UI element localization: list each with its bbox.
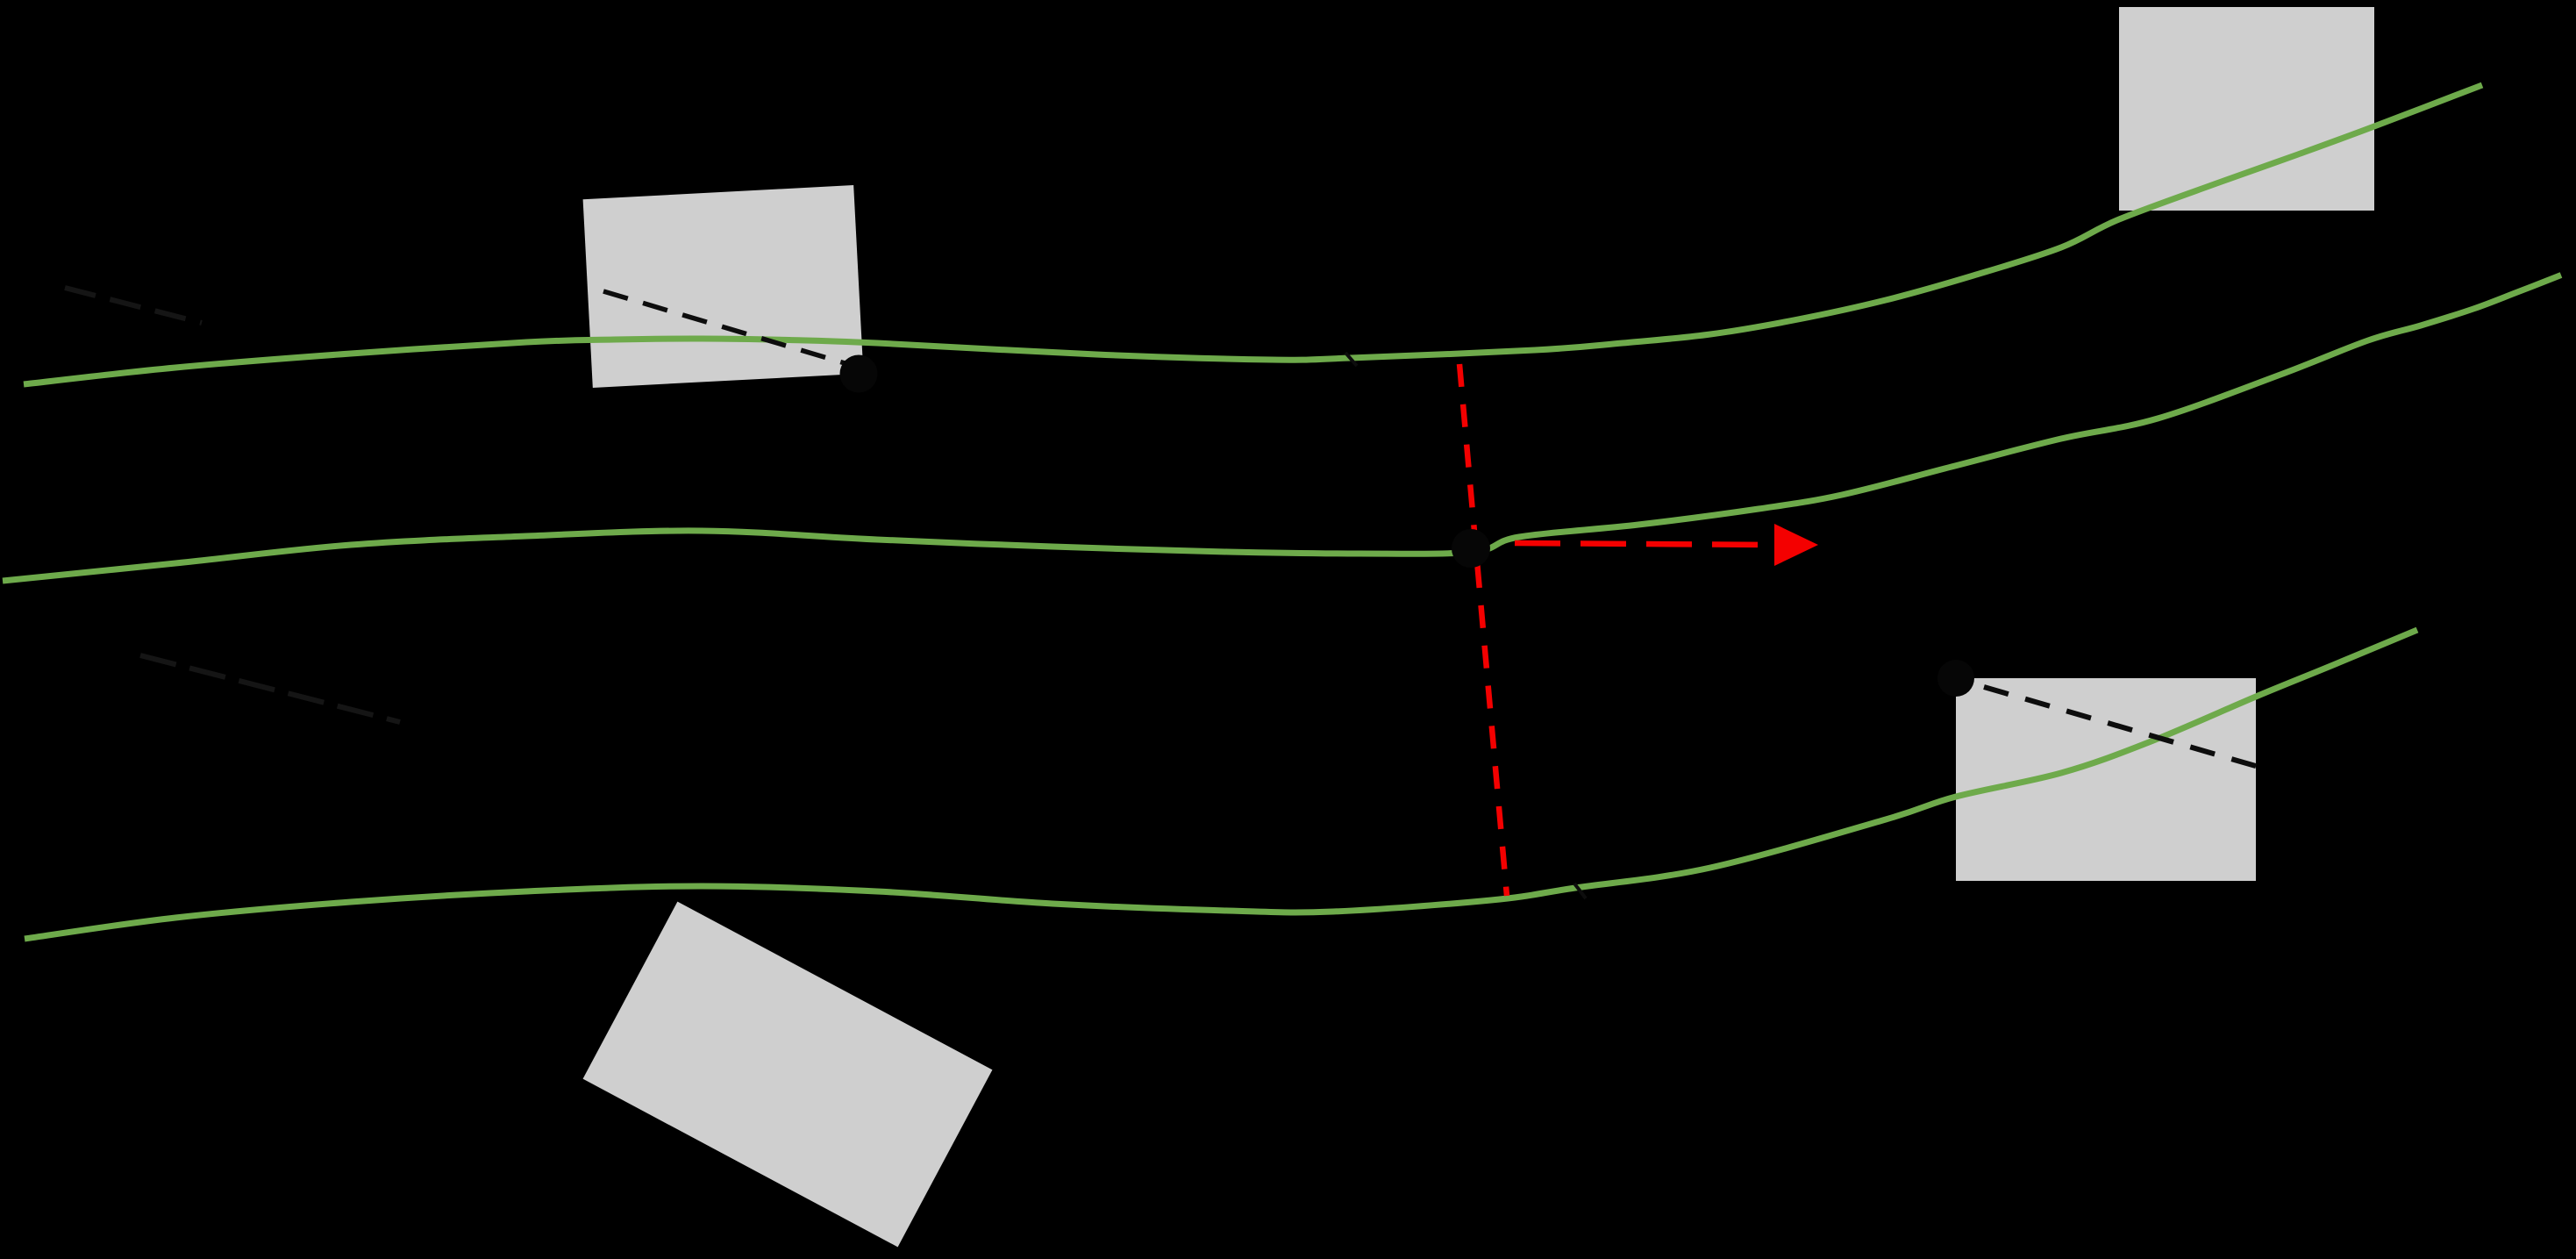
segment-joint tick on curve 1 [1345, 353, 1357, 366]
corner dot of vehicle C [1937, 660, 1974, 697]
faint past-trajectory dashed line lower-left [140, 655, 400, 722]
corner dot of vehicle A [840, 355, 878, 393]
lane boundary curve 1 (top, green) [24, 85, 2482, 384]
red dashed tangent arrow (s-axis) [1515, 543, 1774, 545]
heading dashed line of vehicle C [1984, 687, 2258, 767]
red dashed normal line (d-axis) [1459, 364, 1507, 896]
segment-joint tick on curve 3 [1574, 883, 1586, 898]
black dot at Frenet origin [1452, 529, 1490, 568]
vehicle box C (right-middle) [1956, 678, 2256, 881]
heading dashed line of vehicle A [603, 291, 860, 368]
vehicle box A (top-left, rotated -3deg) [583, 185, 864, 388]
lane boundary curve 2 (middle, green) [3, 275, 2561, 582]
lane boundary curve 3 (bottom, green) [25, 630, 2417, 939]
vehicle box B (top-right) [2119, 7, 2374, 211]
faint past-trajectory dashed line upper-left [65, 288, 202, 323]
red arrowhead [1774, 524, 1818, 566]
vehicle box D (bottom, rotated 28deg) [583, 902, 993, 1248]
